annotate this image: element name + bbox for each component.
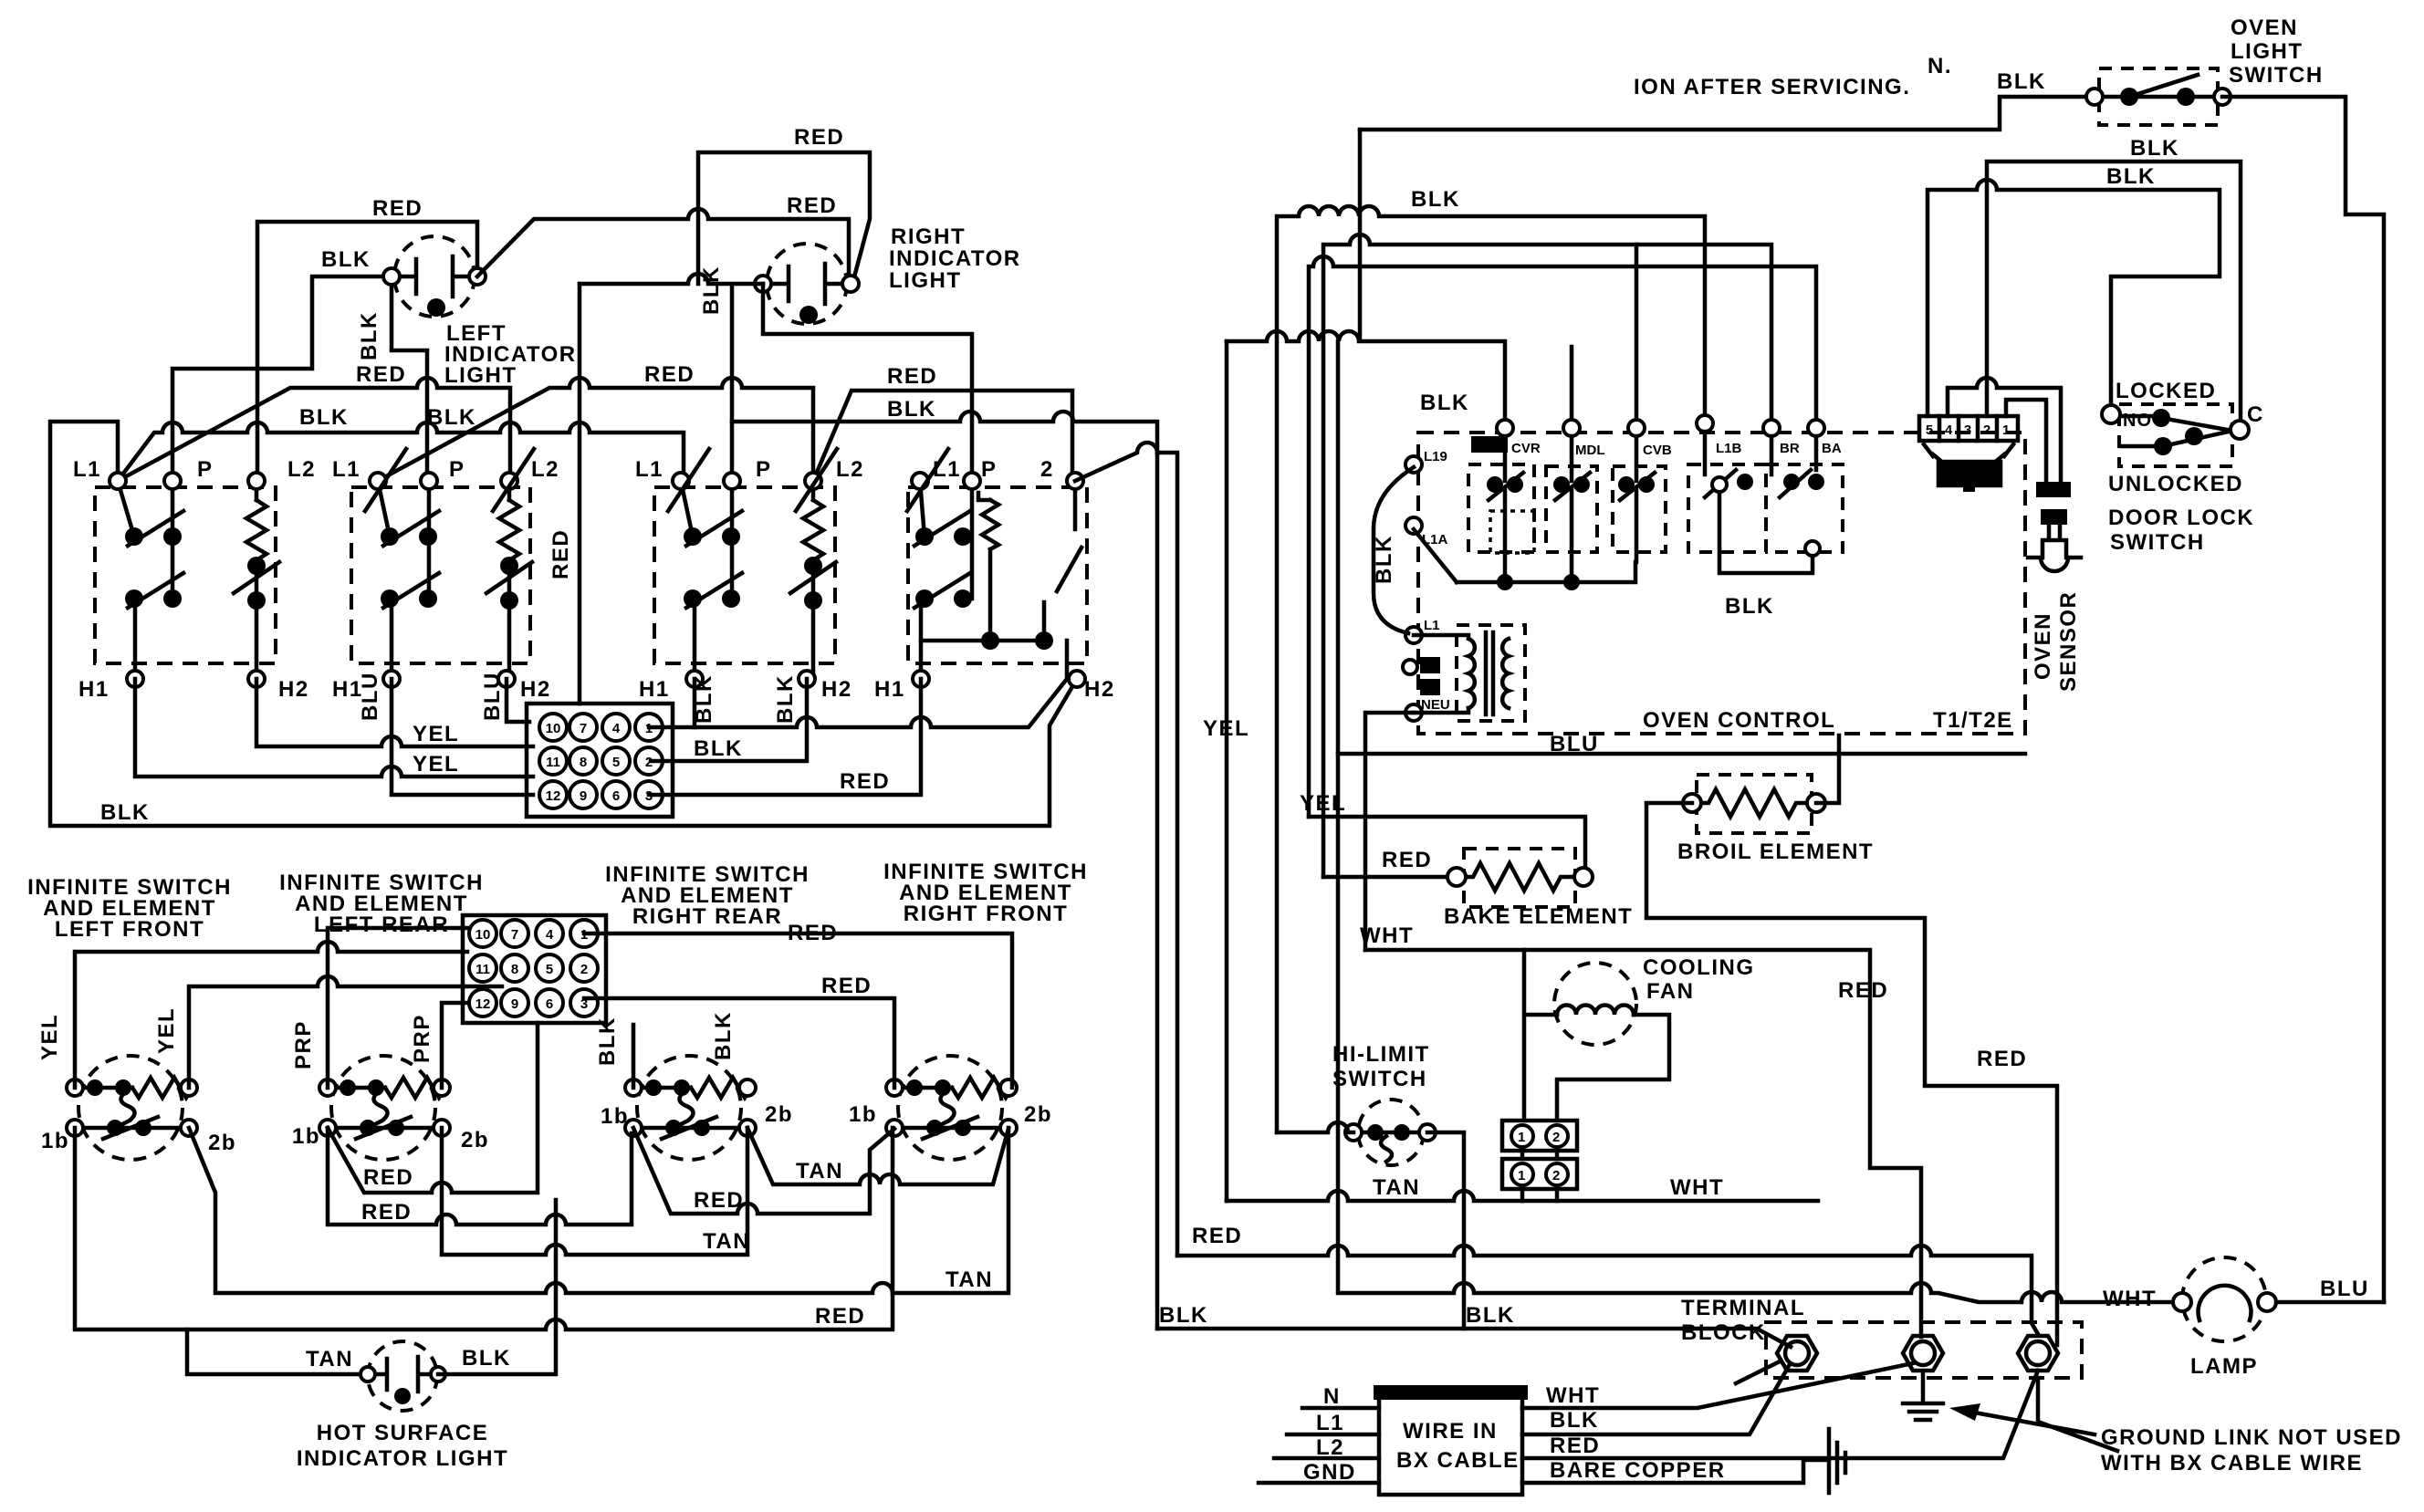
SECTIONS INSERTED BELOW: [50, 125, 1157, 1329]
svg-text:3: 3: [1964, 422, 1971, 438]
wire sw3 left up: [632, 1025, 636, 1088]
svg-text:N: N: [1323, 1384, 1341, 1409]
svg-text:SWITCH: SWITCH: [2110, 530, 2205, 555]
svg-text:WHT: WHT: [1670, 1175, 1724, 1200]
wire row y268: [1323, 235, 1771, 877]
svg-text:C: C: [2247, 402, 2264, 427]
wire BLK lock NO: [1928, 180, 2220, 416]
wire WHT row to lamp: [1338, 341, 2180, 1302]
svg-text:BLK: BLK: [100, 800, 150, 825]
svg-text:BR: BR: [1780, 441, 1800, 456]
svg-text:L19: L19: [1424, 449, 1447, 464]
block 2 pin circles: [469, 920, 598, 1017]
wire YEL H1a to block: [135, 679, 533, 777]
wire BLK row to lug1: [1157, 1329, 1791, 1383]
5-pin connector: [1919, 416, 2018, 456]
lamp: [2173, 1257, 2276, 1341]
svg-text:BLK: BLK: [427, 405, 476, 430]
wire RED block2 pin3 to sw4 left: [584, 998, 894, 1088]
svg-text:LEFT FRONT: LEFT FRONT: [55, 917, 204, 942]
svg-text:6: 6: [612, 788, 620, 804]
wire YEL sw1 left up to block2: [75, 942, 467, 1088]
block 1 pin numbers: [546, 721, 653, 804]
svg-text:BA: BA: [1822, 441, 1842, 456]
surface switch box 4: [908, 473, 1087, 687]
wire TAN WHT row: [1227, 1191, 1818, 1201]
block 1 pin circles: [539, 714, 663, 808]
wire hi-limit left: [1277, 1122, 1353, 1132]
wire TAN sw2-2b to sw3-2b: [442, 1128, 747, 1255]
svg-text:TERMINAL: TERMINAL: [1681, 1296, 1805, 1320]
hi-limit switch: [1345, 1100, 1436, 1165]
svg-text:RIGHT REAR: RIGHT REAR: [632, 904, 782, 929]
wire hi-limit right down: [1427, 1132, 1464, 1329]
infinite switch RIGHT FRONT: [886, 1056, 1017, 1160]
svg-text:BLK: BLK: [1420, 391, 1469, 415]
svg-text:L1: L1: [1316, 1411, 1344, 1435]
svg-text:BROIL ELEMENT: BROIL ELEMENT: [1677, 839, 1874, 864]
svg-text:BLU: BLU: [2320, 1277, 2369, 1301]
wire RED left indicator feed: [257, 222, 477, 481]
svg-text:BARE COPPER: BARE COPPER: [1550, 1458, 1726, 1483]
lug 1: [1777, 1336, 1817, 1371]
label INFINITE SWITCH AND ELEMENT LEFT FRONT: [27, 860, 1088, 942]
svg-text:6: 6: [546, 996, 553, 1012]
svg-text:BLK: BLK: [1159, 1303, 1208, 1328]
wire BLK long row: [118, 422, 684, 481]
svg-text:P: P: [756, 457, 772, 482]
svg-text:TAN: TAN: [946, 1267, 993, 1292]
svg-text:YEL: YEL: [154, 1007, 179, 1054]
svg-text:7: 7: [580, 721, 587, 736]
wire RED row box2-box3: [378, 378, 813, 481]
bake element: [1447, 849, 1593, 907]
wire TAN to hot surface light: [187, 1330, 369, 1374]
svg-text:2b: 2b: [208, 1131, 236, 1155]
broil element: [1683, 775, 1825, 833]
wire BLK from light: [438, 1200, 556, 1374]
wire MDL stub: [1570, 347, 1574, 428]
svg-text:BLK: BLK: [2130, 136, 2179, 161]
svg-text:RED: RED: [887, 364, 937, 389]
wire pin2 BLK to H2c: [651, 679, 807, 761]
svg-text:P: P: [197, 457, 214, 482]
BX input lines: [1259, 1408, 1379, 1483]
svg-text:10: 10: [475, 927, 491, 943]
wire broil right stub: [1816, 735, 1839, 803]
svg-text:RED: RED: [1192, 1224, 1242, 1248]
wire RED sw2-1b to block2: [328, 1023, 538, 1193]
wire RED sw3-1b diag row: [633, 1128, 894, 1214]
wire oven sensor pin4: [1948, 378, 2061, 484]
wire RED vertical to pin7: [578, 284, 582, 704]
wire BLK lock C: [1987, 162, 2241, 422]
svg-text:BLK: BLK: [462, 1346, 511, 1371]
svg-text:1: 1: [2002, 422, 2010, 438]
svg-text:10: 10: [546, 721, 561, 736]
svg-text:WIRE IN: WIRE IN: [1403, 1419, 1498, 1444]
wire RED bottom bus sw1-1b to sw4-1b: [75, 1128, 893, 1330]
svg-text:LIGHT: LIGHT: [2231, 39, 2304, 64]
svg-text:LEFT REAR: LEFT REAR: [314, 912, 449, 937]
left indicator light: [383, 236, 486, 317]
svg-text:YEL: YEL: [1203, 716, 1249, 741]
svg-text:UNLOCKED: UNLOCKED: [2108, 472, 2243, 496]
wire PRP sw2 right up to block2: [442, 1003, 467, 1088]
svg-text:RED: RED: [372, 196, 423, 221]
svg-text:9: 9: [580, 788, 587, 804]
svg-text:HI-LIMIT: HI-LIMIT: [1332, 1042, 1430, 1067]
lug3 stub and arrow: [2038, 1378, 2117, 1451]
wire BARE COPPER: [1522, 1460, 1825, 1483]
svg-text:RED: RED: [815, 1304, 865, 1329]
wire NEU white run: [1365, 713, 1921, 1337]
svg-text:RED: RED: [549, 529, 573, 579]
surface switch box 2: [351, 473, 532, 687]
wire pin1 RED to H2d: [649, 679, 1067, 727]
wire YEL H2a to block: [256, 679, 533, 746]
svg-text:5: 5: [1926, 422, 1933, 438]
wire BLK left light down to P box2: [392, 276, 427, 481]
lug 3: [2018, 1336, 2058, 1371]
svg-text:1: 1: [1518, 1168, 1525, 1184]
svg-text:BLK: BLK: [773, 674, 798, 724]
wire bundle vertical x1344: [1225, 341, 1229, 1201]
svg-text:TAN: TAN: [703, 1229, 750, 1254]
svg-text:H2: H2: [520, 677, 551, 702]
svg-text:H2: H2: [821, 677, 852, 702]
relay CVB: [1613, 436, 1666, 562]
wire RED block2 pin1 to sw4 right: [584, 933, 1012, 1088]
svg-text:RED: RED: [356, 362, 406, 387]
wire BLK seg to 2-terminal: [732, 412, 1157, 1329]
svg-text:RED: RED: [694, 1188, 744, 1213]
svg-text:RED: RED: [787, 193, 837, 218]
relay CVR: [1468, 436, 1534, 590]
svg-text:BLK: BLK: [1725, 594, 1774, 619]
svg-text:4: 4: [1945, 422, 1953, 438]
svg-text:ION AFTER SERVICING.: ION AFTER SERVICING.: [1634, 75, 1910, 99]
wire YEL sw1 right up to block2: [189, 976, 502, 1088]
earth ground at bare copper: [1829, 1429, 1845, 1493]
hot surface indicator light: [360, 1341, 445, 1411]
svg-text:MDL: MDL: [1575, 443, 1605, 458]
right indicator light: [755, 244, 859, 324]
surface switch box 1: [95, 473, 279, 687]
svg-text:1b: 1b: [292, 1124, 320, 1149]
svg-text:TAN: TAN: [1373, 1175, 1420, 1200]
svg-text:LAMP: LAMP: [2190, 1354, 2258, 1379]
svg-text:COOLING: COOLING: [1643, 955, 1755, 980]
svg-text:BLK: BLK: [887, 397, 936, 422]
svg-text:CVB: CVB: [1643, 443, 1672, 458]
svg-text:WHT: WHT: [1546, 1383, 1600, 1408]
svg-text:2: 2: [1040, 457, 1054, 482]
svg-text:RED: RED: [794, 125, 844, 150]
svg-text:LIGHT: LIGHT: [889, 268, 962, 293]
svg-text:L1B: L1B: [1716, 441, 1742, 456]
svg-text:BLK: BLK: [357, 311, 381, 360]
svg-text:LIGHT: LIGHT: [444, 363, 517, 388]
left terminals: [1405, 456, 1422, 473]
svg-text:RED: RED: [1382, 848, 1432, 872]
wire oven sensor pin1: [2006, 400, 2046, 484]
svg-text:WITH BX CABLE WIRE: WITH BX CABLE WIRE: [2101, 1451, 2363, 1476]
wire RED to bake left: [1323, 875, 1457, 880]
svg-text:9: 9: [511, 996, 518, 1012]
svg-text:BX CABLE: BX CABLE: [1396, 1448, 1520, 1473]
relay plug block B: [1502, 1159, 1577, 1189]
svg-text:BLU: BLU: [1550, 732, 1599, 756]
svg-text:2: 2: [580, 962, 588, 977]
oven sensor: [2028, 482, 2081, 571]
wire BLK right light down long run: [763, 284, 972, 481]
terminal block dashed: [1766, 1322, 2082, 1378]
surface switch box 3: [654, 473, 836, 687]
svg-text:12: 12: [546, 788, 561, 804]
wire RED right light down long run: [813, 391, 1072, 481]
svg-text:2b: 2b: [1024, 1102, 1052, 1127]
svg-text:GND: GND: [1303, 1460, 1356, 1485]
svg-text:11: 11: [475, 962, 490, 977]
wire RED row to lug3: [1177, 1246, 2038, 1334]
wire WHT BX to lug2: [1522, 1363, 1913, 1408]
wire RED top right-light: [698, 152, 870, 284]
svg-text:BLU: BLU: [358, 672, 382, 721]
svg-text:RED: RED: [644, 362, 695, 387]
svg-text:BLK: BLK: [1372, 535, 1396, 584]
svg-text:P: P: [449, 457, 465, 482]
wire BLK BX to lug1: [1522, 1366, 1789, 1434]
svg-text:8: 8: [580, 755, 587, 770]
wire plug stubs: [1522, 1151, 1557, 1201]
svg-text:RED: RED: [361, 1200, 412, 1225]
cooling fan: [1524, 950, 1669, 1121]
svg-text:7: 7: [511, 927, 518, 943]
wire RED sw2-1b row2: [328, 1128, 632, 1225]
wire BLU lamp: [2276, 1300, 2384, 1305]
svg-text:L2: L2: [531, 457, 559, 482]
svg-text:T1/T2E: T1/T2E: [1933, 708, 2013, 733]
svg-text:L2: L2: [1316, 1435, 1344, 1460]
svg-text:H2: H2: [278, 677, 309, 702]
wire RED row box1-box2: [118, 378, 510, 481]
svg-text:L2: L2: [836, 457, 864, 482]
infinite switch RIGHT REAR: [625, 1056, 756, 1160]
wire row y292: [1309, 256, 1816, 817]
svg-text:12: 12: [475, 996, 491, 1012]
svg-text:H1: H1: [874, 677, 905, 702]
terminal lever diagonals: [365, 443, 1177, 1256]
svg-text:LOCKED: LOCKED: [2116, 379, 2216, 403]
svg-text:1: 1: [1518, 1130, 1525, 1145]
terminal labels: [1471, 436, 1508, 453]
wire TAN row sw4-2b: [189, 1128, 1008, 1293]
svg-text:L1: L1: [635, 457, 663, 482]
wire H1c stub: [693, 679, 697, 727]
wire BLK to oven light switch: [1360, 97, 2095, 130]
wire BLK oven light switch to lamp BLU: [2222, 97, 2384, 1302]
svg-text:TAN: TAN: [796, 1159, 843, 1184]
svg-text:L2: L2: [287, 457, 316, 482]
infinite switch LEFT FRONT: [67, 1056, 197, 1160]
transformer: [1414, 625, 1525, 721]
wire pin3 RED to H1d: [649, 679, 921, 795]
svg-text:HOT SURFACE: HOT SURFACE: [317, 1421, 489, 1445]
connector block 1: [527, 704, 673, 817]
wire CVB stub: [1635, 245, 1639, 428]
wire broil left loop: [1646, 803, 2057, 1345]
svg-text:5: 5: [612, 755, 620, 770]
svg-text:11: 11: [546, 755, 560, 770]
relay BA: [1766, 436, 1843, 556]
svg-text:WHT: WHT: [2103, 1287, 2157, 1311]
svg-text:L1: L1: [1424, 618, 1440, 633]
svg-text:TAN: TAN: [306, 1347, 353, 1371]
wire L19 curve: [1374, 467, 1414, 633]
svg-text:2: 2: [1552, 1130, 1560, 1145]
relay plug block A: [1502, 1121, 1577, 1151]
infinite switch LEFT REAR: [319, 1056, 450, 1160]
label HOT SURFACE INDICATOR LIGHT: [297, 1421, 508, 1471]
wire TAN sw3-2b to sw4-2b trapezoid: [747, 1128, 1008, 1184]
svg-text:WHT: WHT: [1360, 923, 1414, 948]
svg-text:H2: H2: [1084, 677, 1115, 702]
svg-text:H1: H1: [78, 677, 110, 702]
dotted sub-box relay1: [1490, 511, 1534, 553]
svg-text:YEL: YEL: [37, 1014, 62, 1060]
wire YEL to bake right: [1309, 817, 1585, 877]
svg-text:BLK: BLK: [2106, 164, 2156, 189]
svg-text:INDICATOR: INDICATOR: [889, 246, 1021, 271]
svg-text:OVEN: OVEN: [2031, 612, 2055, 680]
svg-text:BLK: BLK: [299, 405, 349, 430]
svg-text:DOOR LOCK: DOOR LOCK: [2108, 506, 2254, 530]
arrow ground link: [1969, 1412, 2095, 1434]
svg-text:RED: RED: [821, 974, 872, 998]
svg-text:RED: RED: [1838, 978, 1888, 1003]
svg-text:BLK: BLK: [321, 247, 371, 272]
svg-text:BLK: BLK: [694, 736, 743, 761]
top terminals: [1497, 420, 1513, 436]
wire BLU: [1338, 752, 2025, 756]
svg-text:2: 2: [1552, 1168, 1560, 1184]
wire BLK outer left loop: [50, 422, 1077, 826]
svg-text:RED: RED: [1977, 1047, 2027, 1071]
wire H2b to block: [507, 679, 529, 722]
svg-text:YEL: YEL: [413, 722, 459, 746]
svg-text:BLK: BLK: [595, 1017, 620, 1066]
wire RED BX to lug3: [1522, 1371, 2038, 1458]
wire BLK row y237: [1277, 206, 1705, 1132]
svg-text:BLK: BLK: [699, 266, 724, 315]
svg-text:GROUND LINK NOT USED: GROUND LINK NOT USED: [2101, 1425, 2402, 1450]
svg-text:BAKE ELEMENT: BAKE ELEMENT: [1444, 904, 1633, 929]
svg-text:SWITCH: SWITCH: [1332, 1067, 1427, 1091]
wire WHT bottom: [1363, 948, 1368, 953]
svg-text:BLU: BLU: [480, 672, 505, 721]
wire PRP sw2 left up to block2: [328, 928, 467, 1088]
oven light switch: [2086, 68, 2231, 125]
svg-text:RED: RED: [1550, 1434, 1600, 1458]
svg-text:PRP: PRP: [410, 1014, 434, 1063]
relay MDL: [1546, 436, 1597, 590]
oven control dashed box: [1418, 433, 2025, 734]
svg-text:CVR: CVR: [1511, 441, 1541, 456]
svg-text:5: 5: [546, 962, 553, 977]
svg-text:2b: 2b: [461, 1128, 489, 1152]
svg-text:RIGHT: RIGHT: [891, 224, 966, 249]
svg-text:1b: 1b: [849, 1102, 877, 1127]
wire bundle row y374: [1227, 130, 1505, 426]
svg-text:OVEN: OVEN: [2231, 16, 2298, 40]
svg-text:4: 4: [546, 927, 554, 943]
ground link under lug2: [1903, 1373, 1943, 1420]
BX cable box: [1374, 1385, 1528, 1495]
svg-text:RIGHT FRONT: RIGHT FRONT: [904, 902, 1068, 926]
svg-text:SENSOR: SENSOR: [2056, 591, 2081, 692]
wire RED between lights: [477, 209, 849, 284]
svg-text:P: P: [981, 457, 998, 482]
svg-text:RED: RED: [788, 921, 838, 945]
svg-text:BLK: BLK: [711, 1011, 736, 1060]
svg-text:1b: 1b: [41, 1129, 69, 1153]
svg-text:FAN: FAN: [1646, 979, 1695, 1004]
wire BLK left light to P box1: [172, 276, 392, 481]
svg-text:RED: RED: [363, 1165, 413, 1190]
svg-text:BLK: BLK: [1411, 187, 1460, 212]
svg-text:BLK: BLK: [1466, 1303, 1515, 1328]
svg-text:OVEN CONTROL: OVEN CONTROL: [1643, 708, 1835, 733]
svg-text:RED: RED: [840, 769, 890, 794]
door lock switch: [2102, 379, 2264, 496]
svg-text:BLK: BLK: [1550, 1408, 1599, 1433]
lug 2: [1903, 1336, 1943, 1371]
relay bus: [1414, 529, 1635, 582]
clock display: [1933, 454, 2004, 492]
svg-text:N.: N.: [1928, 54, 1952, 78]
wire BLK right light to P box3: [580, 274, 763, 481]
svg-text:INDICATOR LIGHT: INDICATOR LIGHT: [297, 1446, 508, 1471]
svg-text:1b: 1b: [601, 1104, 629, 1129]
svg-text:H1: H1: [639, 677, 670, 702]
svg-text:BLK: BLK: [1997, 69, 2046, 94]
svg-text:PRP: PRP: [291, 1020, 316, 1069]
svg-text:NEU: NEU: [1421, 697, 1450, 713]
svg-text:L1: L1: [332, 457, 360, 482]
block 2 pin numbers: [475, 927, 589, 1012]
svg-text:8: 8: [511, 962, 518, 977]
svg-text:L1: L1: [73, 457, 101, 482]
svg-text:BLOCK: BLOCK: [1681, 1320, 1766, 1345]
svg-text:4: 4: [612, 721, 621, 736]
svg-text:NO: NO: [2123, 411, 2152, 431]
connector block 2: [463, 915, 606, 1023]
svg-text:SWITCH: SWITCH: [2229, 63, 2324, 88]
relay BR: [1688, 432, 1813, 573]
svg-text:2b: 2b: [765, 1102, 793, 1127]
svg-text:2: 2: [1983, 422, 1990, 438]
svg-text:YEL: YEL: [413, 752, 459, 777]
wire H1b to pin12: [392, 679, 533, 795]
